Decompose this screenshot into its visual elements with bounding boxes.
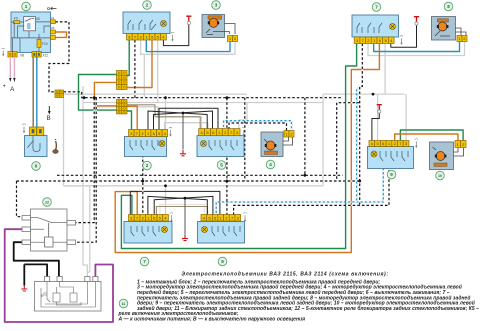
svg-text:Х11: Х11 (43, 54, 49, 58)
svg-text:5: 5 (220, 163, 223, 168)
svg-text:Х8: Х8 (20, 54, 24, 58)
svg-text:К1: К1 (51, 16, 55, 20)
svg-text:10: 10 (438, 174, 442, 178)
svg-text:2: 2 (146, 163, 149, 168)
svg-text:7: 7 (375, 5, 378, 10)
svg-text:А — к источникам питания; В —: А — к источникам питания; В — к выключат… (118, 317, 306, 323)
svg-text:+: + (3, 84, 6, 90)
svg-text:Электростеклоподъемники ВАЗ 21: Электростеклоподъемники ВАЗ 2115, ВАЗ 21… (181, 272, 388, 278)
svg-text:E: E (41, 293, 44, 298)
svg-text:К5: К5 (36, 17, 40, 21)
svg-text:9: 9 (221, 259, 224, 264)
svg-text:1: 1 (25, 4, 28, 9)
svg-text:2: 2 (146, 3, 149, 8)
svg-text:4: 4 (269, 162, 272, 167)
svg-text:12: 12 (45, 201, 49, 205)
svg-text:9: 9 (390, 172, 393, 177)
svg-text:F10: F10 (42, 42, 48, 46)
svg-text:8: 8 (447, 4, 450, 9)
svg-text:К6: К6 (51, 26, 55, 30)
svg-text:7: 7 (143, 259, 146, 264)
svg-text:А: А (10, 87, 14, 93)
svg-text:В: В (47, 116, 51, 122)
svg-text:3: 3 (215, 3, 218, 8)
svg-text:11: 11 (122, 302, 126, 306)
svg-text:6: 6 (35, 164, 38, 169)
svg-text:F5: F5 (14, 17, 18, 21)
